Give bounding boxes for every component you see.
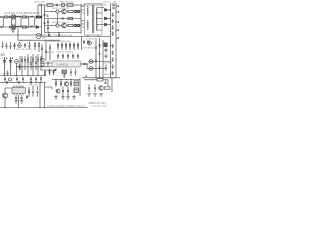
wire row A	[45, 11, 82, 13]
node dots row B	[51, 25, 81, 26]
node dots y107.5	[4, 107, 45, 108]
node dots top rail	[54, 4, 81, 5]
node dots rail2	[11, 26, 36, 27]
resistor between	[40, 77, 42, 83]
resistor R13	[32, 54, 34, 70]
capacitor E5	[29, 43, 31, 49]
resistor S1	[55, 80, 57, 87]
diode DB	[56, 24, 59, 27]
node dots cluster	[55, 79, 71, 88]
vertical comb x20	[19, 56, 21, 70]
svg-text:R18 R19: R18 R19	[26, 62, 35, 64]
node dots y66.8	[22, 66, 42, 67]
comparator circle left a	[41, 58, 44, 61]
wire bus y35	[0, 34, 46, 36]
wire T2 primary in	[81, 7, 85, 28]
resistor R58	[47, 4, 53, 7]
resistor S5	[67, 88, 69, 95]
capacitor on x44.5	[44, 15, 46, 16]
opto Q5	[89, 60, 93, 64]
svg-text:C1 L1 CX1 T1 CY1 BR1 D3 R8 C5: C1 L1 CX1 T1 CY1 BR1 D3 R8 C5	[4, 13, 40, 15]
svg-text:C13 R16: C13 R16	[1, 73, 10, 75]
inductor L1b	[16, 25, 21, 28]
cap between 2	[30, 77, 32, 83]
wire rail2	[2, 26, 42, 28]
resistor row1	[57, 43, 59, 50]
resistor box right	[105, 87, 111, 89]
opto box	[74, 81, 78, 86]
vertical element 2	[38, 42, 40, 52]
diode circle under T2	[88, 41, 92, 45]
opto Q6	[89, 67, 93, 71]
resistor right of IC2	[28, 87, 30, 97]
ground filter	[11, 28, 14, 32]
tick marks on buses	[95, 47, 101, 68]
transistor Q8	[64, 82, 68, 86]
diode DA	[56, 10, 59, 13]
capacitor right	[105, 48, 108, 53]
ground PG c	[99, 94, 102, 96]
capacitor below IC2 b	[21, 95, 23, 100]
wire diode join	[107, 10, 111, 25]
node dots bus	[2, 82, 41, 83]
resistor R3	[68, 10, 73, 12]
component below-left of IC b	[49, 69, 51, 76]
wire vertical x44.5	[44, 83, 46, 108]
transistor Q9	[56, 89, 60, 93]
capacitor under IC	[54, 70, 56, 71]
cap between	[16, 77, 18, 83]
box on bus x99.5	[99, 45, 101, 47]
vertical comb x36	[35, 56, 37, 70]
wire cap stems to bus	[5, 63, 39, 75]
wire bus y107.5	[0, 107, 88, 109]
capacitor right2	[105, 55, 108, 58]
svg-text:12V ATX PSU: 12V ATX PSU	[92, 105, 107, 108]
IC pins top	[54, 60, 78, 61]
wire y66.8	[16, 66, 52, 68]
vertical comb x31	[30, 56, 32, 70]
component below-left of IC c	[53, 70, 55, 76]
wire drops top	[37, 5, 39, 17]
choke L3 bars	[112, 4, 115, 9]
capacitor below IC2	[15, 95, 17, 100]
resistor S4	[62, 88, 64, 95]
fuse F1	[4, 16, 8, 18]
bridge diode D3	[36, 26, 38, 29]
wire vertical x57.5 between rows	[57, 13, 59, 24]
transistor Q10	[99, 86, 103, 90]
capacitor on bus a	[85, 75, 87, 76]
output bus left	[110, 3, 112, 78]
capacitor C40	[40, 4, 42, 6]
capacitor C1b	[10, 26, 11, 29]
wire top of cluster	[52, 79, 80, 81]
svg-text:D20 L3: D20 L3	[103, 1, 111, 3]
wire bus y82.5	[0, 82, 46, 84]
capacitor with dot	[2, 43, 4, 49]
svg-text:R40 C33: R40 C33	[29, 85, 38, 87]
capacitor C28	[112, 71, 114, 75]
wire y32.5	[45, 32, 82, 34]
transistor Q2	[62, 23, 67, 28]
capacitor CY1b	[27, 26, 28, 28]
capacitor on bus	[7, 81, 8, 84]
capacitor C9	[48, 33, 50, 37]
capacitor C11 big electrolytic	[9, 57, 13, 69]
bridge diode D1	[36, 16, 38, 19]
varistor circle	[15, 60, 19, 64]
wire mid y18.5	[45, 18, 82, 20]
wire into IC left	[40, 63, 56, 70]
ground SG1	[54, 95, 57, 99]
capacitor on bus 3	[31, 81, 32, 84]
ground below IC2 b	[20, 101, 23, 103]
svg-text:C16 C17 C18 R26: C16 C17 C18 R26	[56, 52, 74, 54]
T2 primary winding lower	[87, 21, 88, 30]
capacitor right of IC2	[32, 86, 34, 97]
capacitor C27	[112, 65, 114, 69]
wire bus y40.2	[18, 39, 60, 41]
wire bus y77.8	[82, 77, 120, 79]
svg-text:R2 Q2 D2 R4 C9: R2 Q2 D2 R4 C9	[52, 22, 69, 24]
svg-text:D14 R30 C22: D14 R30 C22	[82, 48, 95, 50]
row between wires: circle	[9, 78, 12, 81]
resistor R12	[27, 54, 29, 70]
bridge diode D2	[40, 16, 42, 19]
wire vertical x81.5	[81, 37, 83, 51]
IC pins bottom	[54, 67, 78, 68]
terminal AC L	[1, 16, 3, 18]
marks on left verticals	[41, 47, 51, 52]
capacitor on x44.5 b	[44, 23, 46, 24]
capacitor C24	[112, 44, 114, 48]
vertical x48 with caps	[47, 19, 49, 33]
dark component	[104, 43, 108, 48]
left verticals	[42, 42, 50, 61]
resistor R14	[37, 54, 39, 70]
capacitor mid	[47, 15, 49, 17]
capacitor C1	[10, 16, 11, 19]
marks left of IC	[47, 62, 49, 66]
svg-text:+5VSB STANDBY POWER CIRCUIT: +5VSB STANDBY POWER CIRCUIT	[47, 105, 85, 108]
resistor S2	[60, 80, 62, 87]
wire vertical x81 lower	[80, 19, 82, 34]
comparator circle left b	[41, 63, 44, 66]
IC U1 TL494	[52, 61, 81, 67]
svg-text:R20 R21 R22 R23 R24 C15: R20 R21 R22 R23 R24 C15	[44, 41, 71, 43]
cap between x36	[35, 77, 37, 83]
capacitor C10 big electrolytic	[3, 57, 7, 69]
vertical buses mid	[96, 38, 103, 78]
svg-text:20: 20	[1, 53, 5, 57]
choke T1 bottom	[30, 25, 34, 28]
node dots row A	[51, 11, 81, 12]
svg-text:R25 C16: R25 C16	[46, 52, 55, 54]
wire vertical x112	[111, 78, 113, 92]
capacitor CX1b X-box	[12, 25, 15, 29]
capacitor CY1	[27, 16, 28, 18]
wire top rail	[38, 4, 102, 6]
wire bus y75.5	[0, 75, 46, 77]
svg-text:R15 C14 D6 R17: R15 C14 D6 R17	[16, 49, 33, 51]
capacitor C25	[112, 51, 114, 55]
wire vertical x41.5	[41, 6, 43, 36]
wire row B	[45, 25, 82, 27]
wire vertical x44.5	[44, 5, 46, 33]
capacitor right3	[105, 65, 107, 72]
wire T2 bottom exits	[88, 35, 98, 37]
ground under IC	[63, 73, 66, 77]
wire vertical x81	[80, 5, 82, 19]
svg-text:R35 C31: R35 C31	[104, 74, 113, 76]
diode D22	[105, 23, 107, 26]
resistor S3	[70, 80, 72, 87]
diode D21	[105, 17, 107, 20]
diode mark on wire	[84, 63, 86, 65]
wire Q7	[5, 88, 12, 108]
transistor Q7	[3, 93, 8, 98]
capacitor C20	[112, 13, 114, 17]
capacitor E2	[6, 43, 8, 49]
vertical element	[34, 42, 36, 50]
node dots	[87, 61, 101, 69]
wire opto outputs	[87, 62, 111, 69]
IC2 pins	[14, 86, 23, 95]
ground PG a	[87, 94, 90, 96]
wire rail1	[2, 16, 42, 18]
choke T1 top	[30, 15, 34, 18]
resistor E3	[14, 43, 16, 50]
transistor Q1	[62, 9, 67, 14]
ground PG b	[93, 94, 96, 96]
marks	[24, 43, 26, 48]
ground SG2	[61, 95, 64, 99]
resistor box on wire	[97, 79, 103, 81]
capacitor on bus 2	[19, 81, 20, 84]
T2 core	[92, 5, 94, 33]
svg-text:C29 R33: C29 R33	[104, 63, 113, 65]
vertical element x22	[21, 56, 23, 70]
capacitor C26	[112, 58, 114, 62]
resistor R0	[22, 16, 26, 18]
wire IC right out	[80, 63, 88, 65]
capacitor C23	[112, 32, 114, 36]
capacitor pair	[10, 43, 12, 49]
vertical element x19.5	[19, 64, 21, 70]
diode D29	[61, 3, 64, 6]
node dots row1	[58, 43, 79, 44]
capacitor C21	[112, 19, 114, 23]
resistor R4	[68, 24, 73, 26]
T2 secondary winding	[96, 8, 97, 31]
IC2 supervisor	[12, 88, 26, 94]
capacitor row2	[57, 54, 59, 60]
capacitor small x7.5	[7, 71, 9, 76]
wire y79.8	[84, 80, 108, 86]
vertical comb x41	[40, 56, 42, 70]
node dots bus y77.8	[95, 77, 112, 78]
wire feeds from left	[45, 87, 53, 89]
node dots bus y40.2	[17, 34, 30, 40]
ground below IC2	[14, 101, 17, 103]
node dots buses	[110, 5, 117, 59]
ground SG4	[72, 95, 75, 99]
resistor mid row	[68, 17, 73, 19]
ground SG3	[66, 95, 69, 99]
diode box 2	[74, 88, 78, 93]
capacitor right of box	[105, 81, 107, 84]
node dots rail1	[11, 16, 36, 17]
diode D20	[105, 9, 107, 12]
node dots bus	[4, 75, 39, 76]
wire drop to bus	[17, 28, 19, 40]
capacitor C30	[57, 4, 58, 7]
node dots bottom	[48, 32, 70, 37]
capacitor under IC right a	[70, 69, 72, 76]
marks under transformer	[83, 40, 89, 44]
resistor R56	[67, 4, 73, 7]
thermistor circle	[36, 34, 41, 39]
node dots band	[2, 42, 30, 44]
capacitor under IC right b	[75, 69, 77, 76]
capacitor right of IC2 b	[37, 86, 39, 97]
resistor PG2	[94, 85, 96, 93]
node dots T2 taps	[97, 13, 98, 26]
svg-text:TL494CN: TL494CN	[56, 62, 68, 66]
vertical element x25	[24, 56, 26, 70]
marks x26-28 below	[26, 95, 28, 99]
resistor R5	[75, 10, 80, 12]
output bus right	[115, 3, 117, 78]
diode circle dark	[18, 44, 22, 48]
resistor R0b	[22, 26, 26, 28]
svg-text:R51 C7 R5: R51 C7 R5	[34, 2, 46, 4]
terminal AC N	[1, 26, 3, 28]
svg-text:T2 EI-33: T2 EI-33	[86, 38, 95, 40]
wire T2 secondary out	[98, 8, 105, 31]
output stubs	[116, 6, 119, 38]
cap between x23	[22, 77, 24, 83]
inductor L1a	[16, 15, 21, 18]
cap between x5	[4, 77, 6, 83]
resistor R6	[75, 24, 80, 26]
capacitor C12	[58, 33, 60, 37]
T2 primary winding upper	[87, 7, 88, 16]
wire y36.5	[42, 36, 111, 38]
crystal box under IC	[62, 70, 67, 73]
component below-left of IC	[44, 70, 46, 76]
wire vertical x80	[79, 78, 81, 96]
wire vertical connectors	[3, 17, 35, 27]
capacitor CX1 X-box	[12, 15, 15, 19]
capacitor C22	[112, 26, 114, 30]
transformer T2 box	[85, 4, 103, 36]
svg-text:R1 Q1 D1 R3 C8: R1 Q1 D1 R3 C8	[52, 8, 69, 10]
wire vertical x40	[39, 83, 41, 108]
wire IC2 down	[18, 95, 20, 107]
capacitor PG1	[88, 85, 90, 93]
output terminal ticks	[118, 5, 120, 39]
capacitor mid row	[62, 17, 63, 19]
